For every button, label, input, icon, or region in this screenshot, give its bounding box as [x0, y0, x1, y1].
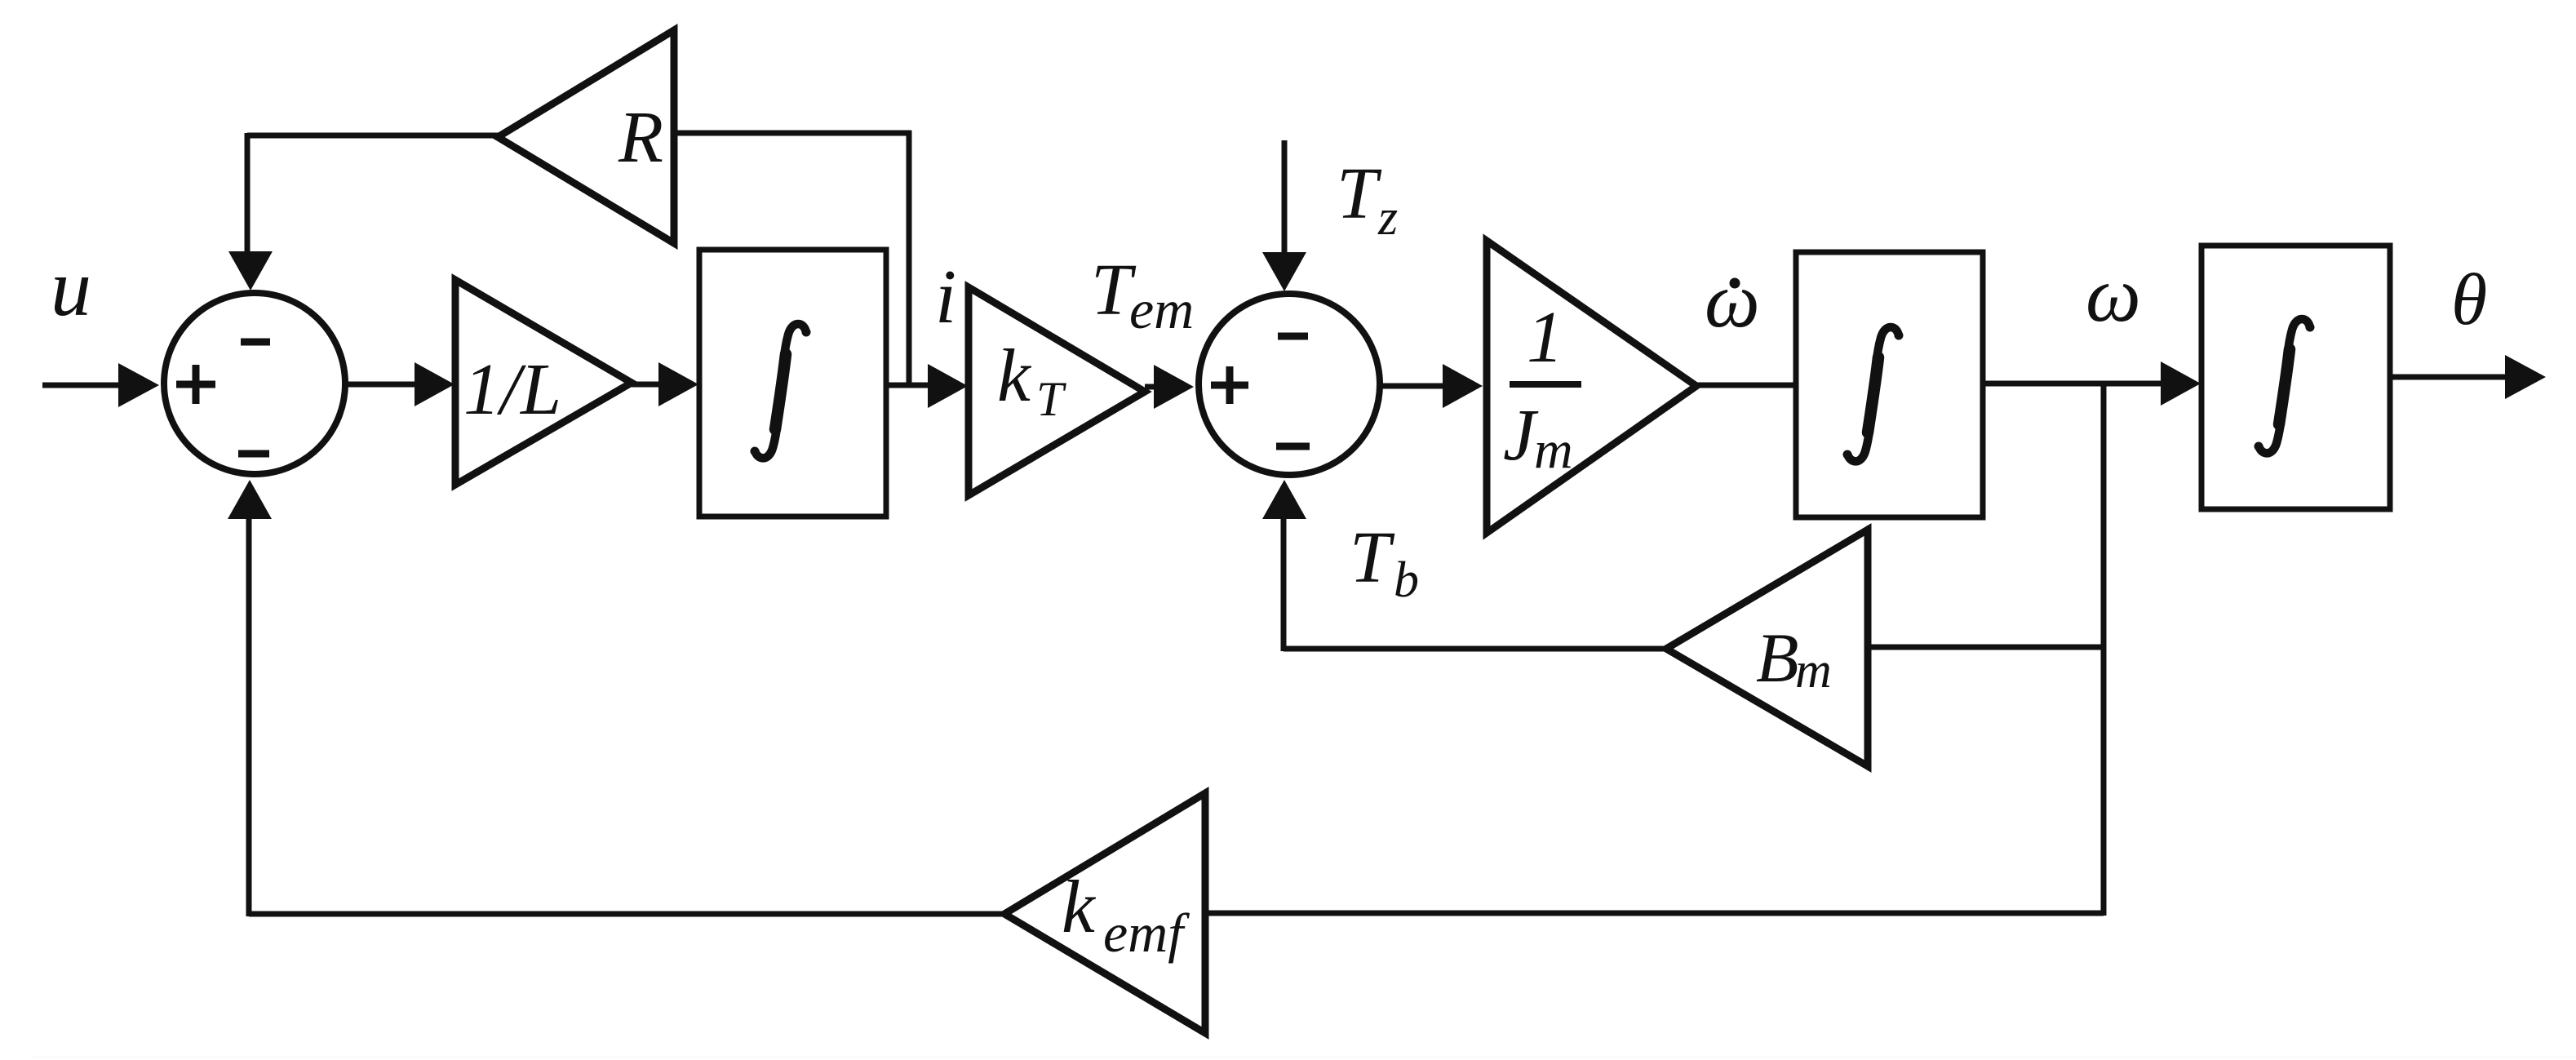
S1 plus sign: [176, 365, 215, 404]
wire node i up to R: [907, 131, 912, 385]
summing junction S2: [1199, 294, 1380, 475]
wire R output to left: [247, 133, 498, 139]
wire I2 to I3 with node omega: [1983, 381, 2166, 387]
svg-text:i: i: [935, 255, 956, 339]
arrowhead into kT: [928, 364, 968, 408]
gain kemf: [1004, 793, 1205, 1033]
arrowhead into integrator I3: [2161, 361, 2201, 406]
svg-text:B: B: [1756, 619, 1799, 697]
wire 1/L to integrator I1: [632, 382, 663, 388]
svg-text:m: m: [1534, 420, 1573, 480]
arrowhead into 1/Jm: [1443, 364, 1483, 408]
S2 bottom minus sign: [1276, 443, 1310, 450]
gain 1/Jm: [1487, 241, 1696, 533]
S2 top minus sign: [1278, 333, 1308, 340]
gain R: [498, 30, 674, 243]
wire I1 to kT with node i: [886, 383, 933, 388]
I1 integral sign: [751, 324, 811, 458]
wire input u: [42, 383, 122, 388]
wire kemf output to left corner: [249, 911, 1004, 917]
wire 1/Jm to integrator I2: [1696, 383, 1796, 388]
svg-text:em: em: [1129, 278, 1194, 340]
wire up into S1 bottom: [246, 517, 252, 916]
svg-text:emf: emf: [1103, 902, 1190, 964]
I3 integral sign: [2255, 319, 2315, 453]
svg-text:1: 1: [1527, 297, 1563, 378]
arrowhead R feedback into S1 top: [228, 251, 273, 291]
wire Tz input: [1282, 140, 1288, 255]
I2 integral sign: [1843, 327, 1904, 461]
arrowhead Tb into S2 bottom: [1262, 480, 1306, 519]
arrowhead into summing junction S1: [118, 363, 159, 407]
integrator I3: [2201, 246, 2390, 509]
arrowhead into integrator I1: [658, 362, 698, 406]
svg-text:θ: θ: [2451, 259, 2487, 340]
wire S2 to 1/Jm: [1381, 384, 1446, 389]
svg-text:z: z: [1377, 190, 1398, 246]
wire kemf input from omega line: [1205, 911, 2104, 916]
S2 plus sign: [1211, 366, 1248, 404]
wire omega to Bm input: [1868, 645, 2104, 650]
arrowhead output theta: [2505, 355, 2546, 399]
wire kT to S2: [1145, 384, 1159, 390]
arrowhead kemf into S1 bottom: [228, 480, 272, 519]
svg-text:R: R: [618, 97, 663, 178]
arrowhead Tz into S2 top: [1262, 252, 1306, 291]
wire I3 output theta: [2390, 375, 2509, 380]
gain kT: [969, 287, 1145, 495]
svg-text:ω: ω: [1705, 256, 1760, 344]
svg-text:k: k: [997, 334, 1032, 417]
svg-text:T: T: [1350, 517, 1395, 598]
svg-text:1/L: 1/L: [463, 349, 561, 430]
svg-text:k: k: [1062, 865, 1097, 948]
gain Bm: [1666, 530, 1868, 766]
integrator I2: [1796, 252, 1983, 517]
svg-text:ω: ω: [2086, 251, 2141, 338]
arrowhead into summing junction S2: [1154, 365, 1194, 409]
wire omega node down: [2101, 384, 2107, 916]
svg-text:b: b: [1394, 552, 1419, 608]
wire Bm output to Tb corner: [1284, 646, 1666, 652]
gain 1/L: [455, 280, 632, 485]
wire S1 to 1/L: [345, 382, 418, 388]
faint page edge line: [33, 1056, 2576, 1059]
S1 bottom minus sign: [238, 450, 269, 458]
svg-text:T: T: [1036, 372, 1066, 426]
wire R input horizontal: [674, 131, 911, 136]
arrowhead into 1/L: [415, 362, 454, 406]
svg-text:u: u: [51, 242, 91, 333]
wire down into S1 top: [245, 133, 251, 255]
svg-text:m: m: [1795, 643, 1832, 699]
integrator I1: [699, 250, 886, 517]
summing junction S1: [164, 293, 345, 474]
S1 top minus sign: [241, 339, 270, 346]
svg-text:T: T: [1337, 153, 1382, 234]
wire Tb vertical: [1281, 517, 1287, 651]
